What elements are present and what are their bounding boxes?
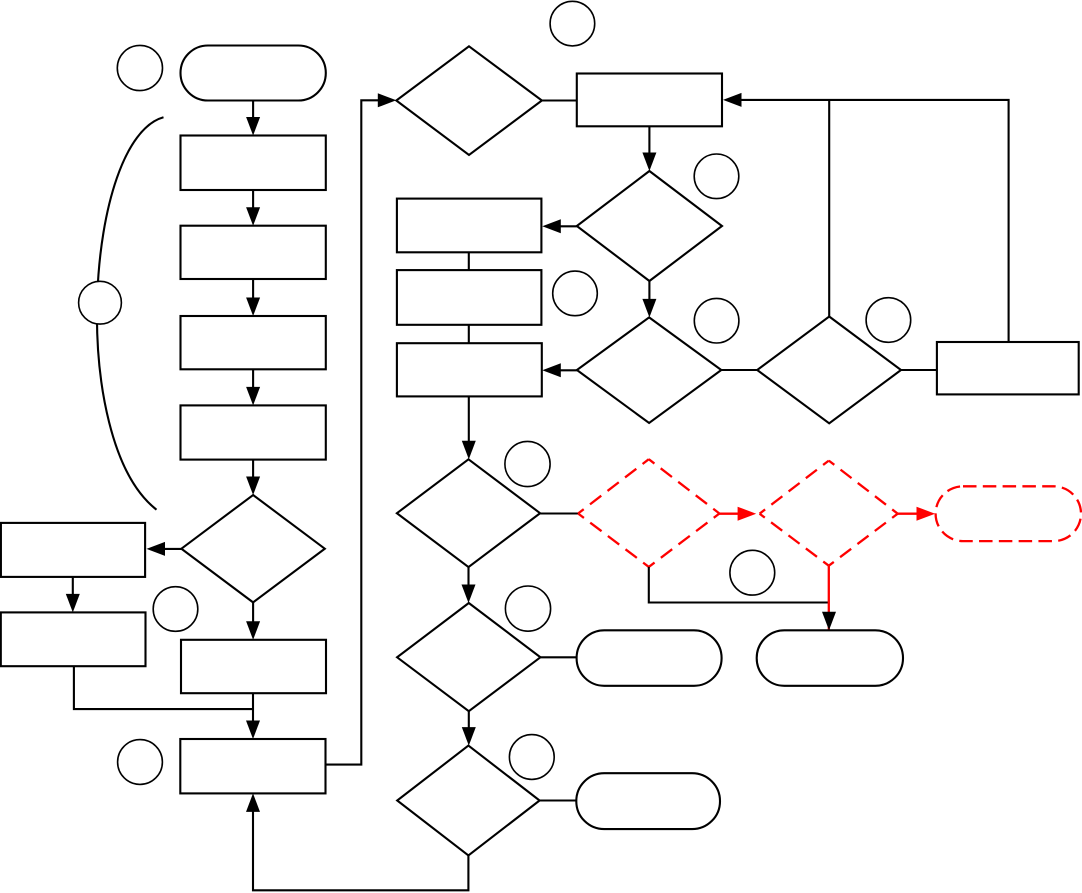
- process P2: [181, 226, 326, 279]
- wire P11 to P12: [468, 325, 470, 343]
- red wire RD1 to RD2: [719, 513, 738, 515]
- process P3: [181, 316, 326, 369]
- decision D7: [397, 603, 540, 711]
- wire P12 to D6: [468, 396, 470, 442]
- wire D7 to T1: [540, 656, 576, 658]
- decision D2: [396, 46, 542, 155]
- wire P9 to D3: [648, 126, 650, 154]
- annotation circle A12: [505, 586, 550, 631]
- wire D8 loop to P8: [253, 810, 468, 890]
- wire D5 to P13: [901, 369, 937, 371]
- wire P6 elbow join: [74, 666, 253, 709]
- wire P13 loop to P9: [741, 100, 1009, 342]
- annotation circle A2: [79, 281, 122, 324]
- process P12: [397, 343, 542, 396]
- annotation circle A9: [866, 298, 911, 343]
- wire D8 to T3: [540, 799, 577, 801]
- wire P4 to D1: [252, 460, 254, 478]
- decision D5: [757, 317, 901, 424]
- wire P5 to P6: [72, 577, 74, 596]
- wire RD1 elbow: [649, 567, 829, 603]
- wire D6 to RD1: [540, 512, 578, 514]
- annotation circle A8: [694, 298, 739, 343]
- wire D3 to P10: [560, 225, 577, 227]
- wire D4 to P12: [560, 369, 577, 371]
- red wire RD2 to RT1: [898, 513, 917, 515]
- wire P7 to P8: [252, 693, 254, 722]
- red decision RD2: [760, 461, 898, 566]
- annotation circle A6: [694, 154, 739, 199]
- wire P10 to P11: [468, 252, 470, 270]
- annotation circle A5: [550, 1, 595, 46]
- process P6: [1, 612, 146, 666]
- wire D1 to P5: [164, 548, 181, 550]
- process P8: [180, 739, 325, 793]
- decision D6: [397, 459, 540, 567]
- annotation circle A4: [118, 740, 163, 785]
- annotation circle A13: [509, 735, 554, 780]
- process P7: [181, 640, 326, 693]
- process P1: [181, 136, 326, 191]
- wire P1 to P2: [252, 190, 254, 209]
- wire D2 to P9: [542, 99, 577, 101]
- process P5: [1, 523, 145, 577]
- terminator T1: [577, 630, 722, 686]
- annotation circle A10: [505, 441, 550, 486]
- wire start to P1: [252, 101, 254, 120]
- wire D3 to D4: [648, 281, 650, 300]
- decision D3: [577, 171, 722, 281]
- wire D1 to P7: [252, 602, 254, 622]
- process P11: [397, 270, 542, 325]
- annotation circle A3: [153, 587, 198, 632]
- annotation circle A7: [553, 271, 598, 316]
- red terminator RT1: [936, 486, 1081, 541]
- brace arc: [97, 117, 164, 509]
- decision D1: [181, 495, 324, 602]
- terminator start: [181, 46, 326, 101]
- wire P3 to P4: [252, 369, 254, 388]
- terminator T3: [576, 773, 720, 829]
- process P10: [397, 199, 542, 253]
- decision D4: [577, 317, 721, 423]
- wire D7 to D8: [468, 711, 470, 728]
- terminator T2: [757, 630, 903, 686]
- red wire RD2 down: [828, 566, 830, 631]
- red decision RD1: [578, 459, 719, 567]
- process P13: [937, 342, 1079, 394]
- process P4: [181, 405, 326, 459]
- wire D5 top to loop: [828, 100, 830, 317]
- arrowhead into T2: [822, 612, 836, 631]
- wire D4 to D5: [721, 369, 757, 371]
- wire D6 to D7: [467, 567, 469, 586]
- wire P8 loop up to D2: [326, 100, 380, 764]
- annotation circle A11: [730, 550, 775, 595]
- process P9: [577, 74, 722, 127]
- wire P2 to P3: [252, 279, 254, 299]
- decision D8: [397, 746, 539, 856]
- annotation circle A1: [117, 45, 162, 90]
